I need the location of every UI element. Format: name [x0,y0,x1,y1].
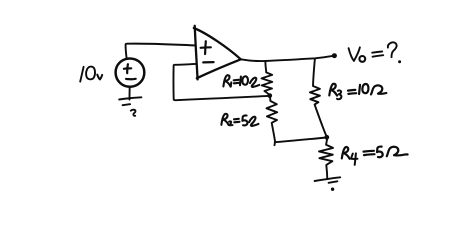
U1 inverting input pin mark (-) [203,61,213,64]
resistor R1 (10 ohm, output to inverting node) [262,61,273,95]
resistor R3 (10 ohm, output wire down to junction) [310,59,326,135]
ground (below R4) [315,177,341,191]
label Vo = ? [349,42,402,63]
wire: op-amp output to Vo node [241,56,334,61]
U1 non-inverting input pin mark (+) [201,41,211,54]
voltage source V1 (10 V) [116,58,145,86]
label 10v (source value) [80,67,102,82]
resistor R4 (5 ohm, junction to ground) [319,139,333,180]
op-amp U1 (triangle body) [194,26,241,80]
V1 minus terminal mark [126,78,136,81]
wire: source top to op-amp non-inverting input [126,44,196,59]
V1 plus terminal mark [124,64,131,73]
node: R1/R2 junction (inverting input node) [267,93,272,98]
label R3 = 10 ohm [329,84,386,99]
label R1 = 10 ohm [223,75,259,87]
wire: bottom (R2 bottom to R3/R4 junction) [275,138,327,146]
wire: inverting input feedback (left, down, right to R1/R2 node) [173,64,269,100]
resistor R2 (5 ohm, inverting node to bottom wire) [267,96,278,142]
ground (below source) [119,97,141,116]
node: output terminal dot [332,53,337,58]
label R4 = 5 ohm [342,147,408,165]
node: R3/R4 junction [324,135,329,140]
wire: source bottom to ground [129,87,131,100]
label R2 = 5 ohm [221,114,258,126]
